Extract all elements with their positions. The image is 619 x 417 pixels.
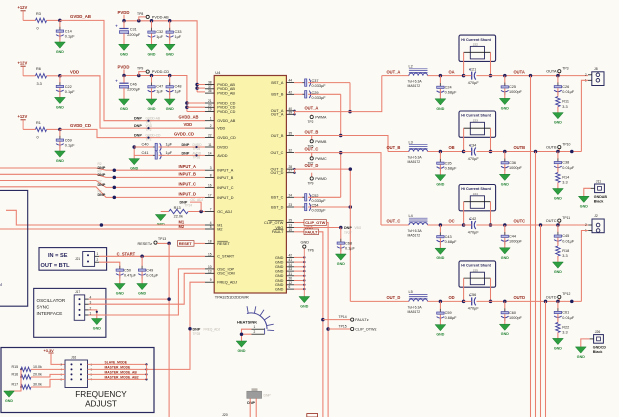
- svg-text:GND: GND: [337, 262, 345, 266]
- svg-text:R2: R2: [98, 189, 102, 193]
- svg-text:1: 1: [210, 117, 212, 121]
- svg-text:GND: GND: [56, 50, 64, 54]
- svg-text:GND: GND: [275, 256, 284, 260]
- svg-text:BST_D: BST_D: [271, 205, 283, 209]
- svg-text:0.01µF: 0.01µF: [562, 90, 575, 94]
- svg-text:470µF: 470µF: [468, 230, 480, 234]
- svg-text:J11: J11: [596, 179, 601, 183]
- svg-text:M2: M2: [217, 227, 222, 231]
- svg-text:INPUT_A: INPUT_A: [217, 169, 234, 173]
- svg-text:0.68µF: 0.68µF: [445, 240, 458, 244]
- svg-text:10.0k: 10.0k: [33, 365, 42, 369]
- svg-text:7uH 6.3A: 7uH 6.3A: [408, 229, 423, 233]
- svg-text:DNP: DNP: [182, 151, 190, 155]
- svg-text:J17: J17: [75, 290, 80, 294]
- svg-text:OB: OB: [449, 145, 455, 150]
- svg-text:BST_A: BST_A: [271, 81, 283, 85]
- svg-text:GVDD_AB: GVDD_AB: [217, 119, 236, 123]
- svg-text:MA5172: MA5172: [408, 233, 421, 237]
- svg-text:MA5172: MA5172: [408, 310, 421, 314]
- svg-text:OUT_A: OUT_A: [305, 106, 319, 111]
- svg-text:MA5172: MA5172: [408, 160, 421, 164]
- svg-text:C68: C68: [345, 241, 352, 245]
- svg-text:C25: C25: [509, 85, 516, 89]
- svg-text:C47: C47: [156, 85, 163, 89]
- svg-text:22: 22: [208, 134, 212, 138]
- svg-text:OUT_C: OUT_C: [387, 219, 401, 224]
- svg-text:MASTER_MODE: MASTER_MODE: [105, 365, 131, 369]
- svg-text:8: 8: [210, 173, 212, 177]
- svg-text:41: 41: [289, 258, 293, 262]
- svg-text:2: 2: [585, 223, 587, 227]
- svg-text:PWMC: PWMC: [315, 157, 327, 161]
- svg-text:TP2: TP2: [308, 120, 314, 124]
- svg-text:FAULTz: FAULTz: [355, 318, 369, 322]
- svg-text:MASTER_MODE_AB: MASTER_MODE_AB: [105, 370, 138, 374]
- svg-text:RESET: RESET: [179, 241, 193, 246]
- svg-text:GND: GND: [554, 346, 562, 350]
- svg-text:R2: R2: [98, 179, 102, 183]
- svg-text:TP9: TP9: [137, 67, 143, 71]
- svg-text:C38: C38: [562, 161, 569, 165]
- svg-text:3: 3: [210, 166, 212, 170]
- svg-text:35: 35: [289, 132, 293, 136]
- svg-text:1µF: 1µF: [175, 90, 182, 94]
- svg-text:DNP: DNP: [134, 117, 142, 121]
- svg-text:TP6: TP6: [308, 249, 314, 253]
- svg-text:3.3: 3.3: [562, 331, 567, 335]
- svg-text:FAULT: FAULT: [272, 230, 284, 234]
- svg-text:GND: GND: [301, 241, 310, 245]
- svg-text:GND: GND: [436, 183, 444, 187]
- svg-text:C49: C49: [146, 268, 153, 272]
- svg-text:GND: GND: [56, 105, 64, 109]
- svg-text:C34: C34: [469, 143, 476, 147]
- svg-text:0.033µF: 0.033µF: [312, 199, 327, 203]
- svg-text:GND: GND: [148, 107, 156, 111]
- svg-text:DNP: DNP: [134, 134, 142, 138]
- svg-text:Black: Black: [594, 200, 604, 204]
- svg-text:IN = SE: IN = SE: [48, 253, 68, 259]
- svg-text:R15: R15: [12, 365, 19, 369]
- svg-text:FAULT: FAULT: [305, 229, 318, 234]
- svg-text:2200µF: 2200µF: [127, 33, 141, 37]
- svg-text:R16: R16: [12, 373, 19, 377]
- svg-text:2: 2: [254, 330, 256, 334]
- svg-text:470µF: 470µF: [468, 81, 480, 85]
- svg-text:C42: C42: [469, 217, 476, 221]
- svg-text:INPUT_B: INPUT_B: [179, 171, 197, 176]
- svg-text:R11: R11: [562, 100, 569, 104]
- svg-text:VBG: VBG: [355, 226, 362, 230]
- svg-text:7uH 6.3A: 7uH 6.3A: [408, 305, 423, 309]
- svg-text:C54: C54: [312, 204, 319, 208]
- svg-text:GND: GND: [580, 204, 588, 208]
- svg-text:L5: L5: [409, 290, 413, 294]
- svg-text:44: 44: [289, 79, 293, 83]
- svg-text:C46: C46: [130, 82, 137, 86]
- svg-text:Hi Current Shunt: Hi Current Shunt: [461, 187, 491, 191]
- svg-text:DNP: DNP: [247, 401, 255, 405]
- svg-text:GND: GND: [577, 355, 585, 359]
- svg-text:OUTA: OUTA: [514, 69, 525, 74]
- svg-text:OA: OA: [449, 69, 455, 74]
- svg-text:GND: GND: [501, 332, 509, 336]
- svg-text:FREQUENCY: FREQUENCY: [75, 390, 127, 399]
- svg-text:GND: GND: [138, 292, 146, 296]
- svg-text:C_START: C_START: [217, 255, 235, 259]
- svg-text:2: 2: [585, 73, 587, 77]
- svg-text:C24: C24: [445, 85, 452, 89]
- svg-text:C32: C32: [156, 30, 163, 34]
- svg-text:5: 5: [210, 225, 212, 229]
- svg-text:2: 2: [210, 124, 212, 128]
- svg-text:0.033µF: 0.033µF: [312, 209, 327, 213]
- svg-text:GND: GND: [275, 288, 284, 292]
- svg-text:1000pF: 1000pF: [509, 166, 523, 170]
- svg-text:OUT_B: OUT_B: [387, 145, 401, 150]
- svg-text:TPA3251D2DDWR: TPA3251D2DDWR: [215, 295, 249, 300]
- svg-text:R14: R14: [562, 176, 569, 180]
- svg-text:39: 39: [289, 110, 293, 114]
- svg-text:GND: GND: [501, 256, 509, 260]
- svg-text:SLAVE_MODE: SLAVE_MODE: [105, 360, 128, 364]
- svg-text:PVDD_AB: PVDD_AB: [217, 92, 235, 96]
- svg-text:DNP: DNP: [134, 124, 142, 128]
- svg-text:10: 10: [208, 265, 212, 269]
- svg-text:C59: C59: [445, 311, 452, 315]
- svg-text:J21: J21: [75, 257, 80, 261]
- svg-text:470µF: 470µF: [468, 307, 480, 311]
- svg-text:TP3: TP3: [562, 66, 568, 70]
- svg-text:OUT_C: OUT_C: [305, 147, 319, 152]
- svg-text:+12V: +12V: [18, 114, 28, 119]
- svg-text:C60: C60: [509, 311, 516, 315]
- svg-text:PVDD: PVDD: [118, 65, 130, 70]
- svg-text:0: 0: [37, 27, 39, 31]
- svg-text:24: 24: [289, 193, 293, 197]
- svg-text:C45: C45: [562, 234, 569, 238]
- svg-text:J2: J2: [594, 214, 598, 218]
- svg-text:0.033µF: 0.033µF: [312, 96, 327, 100]
- svg-text:GND: GND: [501, 106, 509, 110]
- svg-text:GND: GND: [166, 52, 174, 56]
- svg-text:AVDD: AVDD: [217, 154, 228, 158]
- svg-text:Hi Current Shunt: Hi Current Shunt: [461, 114, 491, 118]
- svg-text:OUTC: OUTC: [546, 219, 557, 223]
- svg-text:C44: C44: [509, 234, 516, 238]
- svg-text:GVDD_CD: GVDD_CD: [217, 136, 236, 140]
- svg-text:GND: GND: [436, 107, 444, 111]
- svg-text:TP14: TP14: [339, 315, 347, 319]
- svg-text:INPUT_A: INPUT_A: [179, 164, 197, 169]
- svg-text:0: 0: [37, 136, 39, 140]
- svg-text:GVDD_AB: GVDD_AB: [70, 14, 91, 19]
- svg-text:INPUT_D: INPUT_D: [179, 191, 197, 196]
- svg-text:C37: C37: [312, 79, 319, 83]
- svg-text:R2: R2: [98, 162, 102, 166]
- svg-text:VDD: VDD: [217, 127, 225, 131]
- svg-text:GND: GND: [275, 261, 284, 265]
- svg-text:0.01µF: 0.01µF: [146, 274, 159, 278]
- svg-text:FREQ_ADJ: FREQ_ADJ: [204, 327, 221, 331]
- svg-text:C43: C43: [445, 235, 452, 239]
- svg-text:11: 11: [208, 143, 212, 147]
- svg-text:TP10: TP10: [562, 142, 570, 146]
- svg-text:CLIP_OTWz: CLIP_OTWz: [355, 328, 376, 332]
- svg-text:GND: GND: [5, 399, 13, 403]
- svg-text:GVDD_CD: GVDD_CD: [70, 123, 91, 128]
- svg-text:J20: J20: [222, 413, 228, 417]
- svg-text:3.3: 3.3: [562, 254, 567, 258]
- svg-text:OC: OC: [449, 219, 455, 224]
- svg-text:MA5172: MA5172: [408, 84, 421, 88]
- svg-text:DVDD: DVDD: [217, 145, 228, 149]
- svg-text:OUT_A: OUT_A: [387, 69, 401, 74]
- svg-text:22.0k: 22.0k: [174, 215, 183, 219]
- svg-text:INPUT_C: INPUT_C: [179, 181, 197, 186]
- svg-text:RESET: RESET: [217, 242, 230, 246]
- svg-text:OC_ADJ: OC_ADJ: [217, 210, 232, 214]
- svg-text:C21: C21: [469, 67, 476, 71]
- svg-text:L3: L3: [409, 140, 413, 144]
- svg-text:23: 23: [289, 203, 293, 207]
- svg-text:1µF: 1µF: [166, 142, 173, 146]
- svg-text:GND: GND: [554, 197, 562, 201]
- svg-text:C31: C31: [130, 28, 137, 32]
- svg-text:9: 9: [210, 278, 212, 282]
- svg-text:TP27: TP27: [344, 231, 352, 235]
- svg-text:20.0k: 20.0k: [33, 373, 42, 377]
- svg-text:0.1µF: 0.1µF: [345, 247, 355, 251]
- svg-text:30.0k: 30.0k: [33, 383, 42, 387]
- svg-text:GND: GND: [148, 52, 156, 56]
- svg-text:18: 18: [208, 239, 212, 243]
- svg-text:0.47µF: 0.47µF: [124, 274, 137, 278]
- svg-text:L2: L2: [409, 64, 413, 68]
- svg-text:OUTA: OUTA: [546, 70, 557, 74]
- svg-text:PVDD_CD: PVDD_CD: [217, 110, 235, 114]
- svg-text:OUT_A: OUT_A: [271, 113, 284, 117]
- svg-text:3.3: 3.3: [562, 181, 567, 185]
- svg-text:GND: GND: [436, 256, 444, 260]
- svg-text:27: 27: [289, 169, 293, 173]
- svg-text:14: 14: [208, 151, 212, 155]
- svg-text:DNP: DNP: [264, 393, 272, 397]
- svg-text:42: 42: [289, 90, 293, 94]
- svg-text:GVDD_AB: GVDD_AB: [179, 115, 199, 120]
- svg-text:OSCILLATOR: OSCILLATOR: [37, 298, 66, 303]
- svg-text:GND: GND: [554, 121, 562, 125]
- svg-text:13: 13: [208, 269, 212, 273]
- svg-text:1000pF: 1000pF: [509, 239, 523, 243]
- svg-text:MASTER_MODE_AB2: MASTER_MODE_AB2: [105, 375, 139, 379]
- svg-text:25: 25: [289, 219, 293, 223]
- svg-text:GND: GND: [120, 107, 128, 111]
- svg-text:1000pF: 1000pF: [509, 316, 523, 320]
- svg-text:INPUT_B: INPUT_B: [217, 176, 234, 180]
- svg-text:DNP: DNP: [193, 327, 201, 331]
- svg-text:31: 31: [289, 272, 293, 276]
- svg-text:0.1µF: 0.1µF: [65, 144, 75, 148]
- svg-text:DNP: DNP: [182, 143, 190, 147]
- svg-text:BST_B: BST_B: [271, 93, 283, 97]
- svg-text:+3.3V: +3.3V: [44, 348, 55, 353]
- svg-text:OUTD: OUTD: [514, 295, 526, 300]
- svg-text:6: 6: [289, 285, 291, 289]
- svg-text:1µF: 1µF: [175, 35, 182, 39]
- svg-text:SYNC: SYNC: [37, 305, 50, 310]
- svg-text:1: 1: [97, 252, 99, 256]
- svg-text:0.1µF: 0.1µF: [65, 90, 75, 94]
- svg-text:GND: GND: [116, 292, 124, 296]
- svg-text:ADJUST: ADJUST: [85, 400, 117, 409]
- svg-text:1000pF: 1000pF: [509, 90, 523, 94]
- svg-text:C69: C69: [65, 139, 72, 143]
- svg-text:BST_C: BST_C: [271, 196, 283, 200]
- svg-text:PWMA: PWMA: [315, 116, 327, 120]
- svg-text:R3: R3: [36, 12, 41, 16]
- svg-text:INTERFACE: INTERFACE: [37, 311, 63, 316]
- svg-text:42: 42: [289, 253, 293, 257]
- svg-text:OUTB: OUTB: [514, 145, 526, 150]
- svg-text:C35: C35: [445, 161, 452, 165]
- svg-text:U4: U4: [215, 70, 221, 75]
- svg-text:PWMD: PWMD: [315, 177, 327, 181]
- svg-text:OSC_IOP: OSC_IOP: [217, 267, 234, 271]
- svg-text:DNP: DNP: [98, 193, 106, 197]
- svg-text:DNP: DNP: [98, 183, 106, 187]
- svg-text:33: 33: [289, 267, 293, 271]
- svg-text:OUT = BTL: OUT = BTL: [41, 263, 71, 269]
- svg-text:+12V: +12V: [18, 61, 28, 66]
- svg-text:C48: C48: [175, 85, 182, 89]
- svg-text:R22: R22: [562, 325, 569, 329]
- svg-text:0.01µF: 0.01µF: [562, 239, 575, 243]
- svg-text:C29: C29: [312, 91, 319, 95]
- svg-text:OUT_C: OUT_C: [271, 151, 284, 155]
- svg-text:7uH 6.3A: 7uH 6.3A: [408, 156, 423, 160]
- svg-text:GND: GND: [275, 270, 284, 274]
- svg-text:TP13: TP13: [158, 237, 166, 241]
- svg-text:OSC_IOM: OSC_IOM: [217, 272, 235, 276]
- svg-text:36: 36: [208, 89, 212, 93]
- svg-text:VDD: VDD: [70, 70, 79, 75]
- svg-text:GND: GND: [166, 107, 174, 111]
- svg-text:TP24: TP24: [185, 204, 193, 208]
- svg-text:GND: GND: [275, 274, 284, 278]
- svg-text:GNDAB: GNDAB: [594, 195, 608, 199]
- svg-text:R18: R18: [562, 249, 569, 253]
- svg-text:GND: GND: [501, 182, 509, 186]
- svg-text:0.68µF: 0.68µF: [445, 316, 458, 320]
- svg-text:C50: C50: [124, 268, 131, 272]
- svg-text:PVDD-AB: PVDD-AB: [152, 15, 169, 19]
- svg-text:OUT_D: OUT_D: [305, 163, 319, 168]
- svg-text:1µF: 1µF: [166, 151, 173, 155]
- svg-text:0.01µF: 0.01µF: [562, 166, 575, 170]
- svg-text:2: 2: [97, 258, 99, 262]
- svg-text:GND: GND: [554, 270, 562, 274]
- svg-text:7uH 6.3A: 7uH 6.3A: [408, 80, 423, 84]
- svg-text:16: 16: [208, 183, 212, 187]
- svg-text:TP28: TP28: [193, 332, 201, 336]
- svg-text:RESETz: RESETz: [138, 242, 153, 246]
- svg-text:R2: R2: [98, 169, 102, 173]
- svg-text:L4: L4: [409, 214, 413, 218]
- svg-text:R17: R17: [12, 383, 19, 387]
- svg-text:N: N: [0, 282, 2, 287]
- svg-text:0.1µF: 0.1µF: [65, 35, 75, 39]
- svg-text:OUTB: OUTB: [546, 146, 557, 150]
- svg-text:GND: GND: [56, 159, 64, 163]
- svg-text:19: 19: [289, 228, 293, 232]
- svg-text:15: 15: [208, 252, 212, 256]
- svg-text:1: 1: [254, 325, 256, 329]
- svg-text:17: 17: [208, 193, 212, 197]
- svg-text:C14: C14: [65, 30, 72, 34]
- svg-text:DNP: DNP: [344, 226, 352, 230]
- svg-text:R1: R1: [36, 121, 41, 125]
- svg-text:19: 19: [208, 108, 212, 112]
- svg-text:1µF: 1µF: [156, 90, 163, 94]
- svg-text:HEATSINK: HEATSINK: [237, 319, 257, 324]
- svg-text:GNDCD: GNDCD: [593, 346, 607, 350]
- svg-text:3.3: 3.3: [562, 105, 567, 109]
- svg-text:OD: OD: [449, 295, 455, 300]
- svg-text:C_START: C_START: [117, 251, 136, 256]
- svg-text:GND: GND: [93, 327, 101, 331]
- svg-text:R6: R6: [36, 67, 41, 71]
- svg-text:GVDD_CD: GVDD_CD: [174, 132, 194, 137]
- svg-text:CLIP_OTW: CLIP_OTW: [264, 221, 284, 225]
- svg-text:C26: C26: [562, 85, 569, 89]
- svg-text:PVDD: PVDD: [118, 10, 130, 15]
- svg-text:PVDD-CD: PVDD-CD: [152, 70, 170, 74]
- svg-text:TP8: TP8: [137, 12, 143, 16]
- svg-text:TP9: TP9: [308, 182, 314, 186]
- svg-text:DNP: DNP: [98, 173, 106, 177]
- svg-text:0.033µF: 0.033µF: [312, 84, 327, 88]
- svg-text:VDD: VDD: [184, 122, 193, 127]
- svg-text:FREQ_ADJ: FREQ_ADJ: [217, 281, 237, 285]
- svg-text:C52: C52: [312, 194, 319, 198]
- svg-text:C40: C40: [142, 142, 149, 146]
- svg-text:OUT_B: OUT_B: [271, 134, 284, 138]
- svg-text:PWMB: PWMB: [315, 140, 327, 144]
- svg-text:C33: C33: [175, 30, 182, 34]
- svg-text:470µF: 470µF: [468, 157, 480, 161]
- svg-text:+12V: +12V: [18, 5, 28, 10]
- svg-text:OC_ADJ: OC_ADJ: [191, 198, 204, 202]
- svg-text:M2: M2: [179, 224, 185, 229]
- svg-text:C36: C36: [509, 161, 516, 165]
- svg-text:OUTD: OUTD: [546, 295, 557, 299]
- svg-text:C61: C61: [562, 311, 569, 315]
- svg-text:J8: J8: [594, 67, 598, 71]
- svg-text:0.68µF: 0.68µF: [445, 90, 458, 94]
- svg-text:J16: J16: [71, 356, 76, 360]
- svg-text:Black: Black: [593, 350, 603, 354]
- svg-text:TP15: TP15: [339, 324, 347, 328]
- svg-text:OUT_B: OUT_B: [305, 129, 319, 134]
- svg-text:OUT_D: OUT_D: [271, 171, 284, 175]
- svg-text:GND: GND: [238, 349, 246, 353]
- svg-text:2200µF: 2200µF: [127, 88, 141, 92]
- svg-text:C41: C41: [142, 151, 149, 155]
- svg-text:Hi Current Shunt: Hi Current Shunt: [461, 38, 491, 42]
- svg-text:OUT_D: OUT_D: [387, 295, 401, 300]
